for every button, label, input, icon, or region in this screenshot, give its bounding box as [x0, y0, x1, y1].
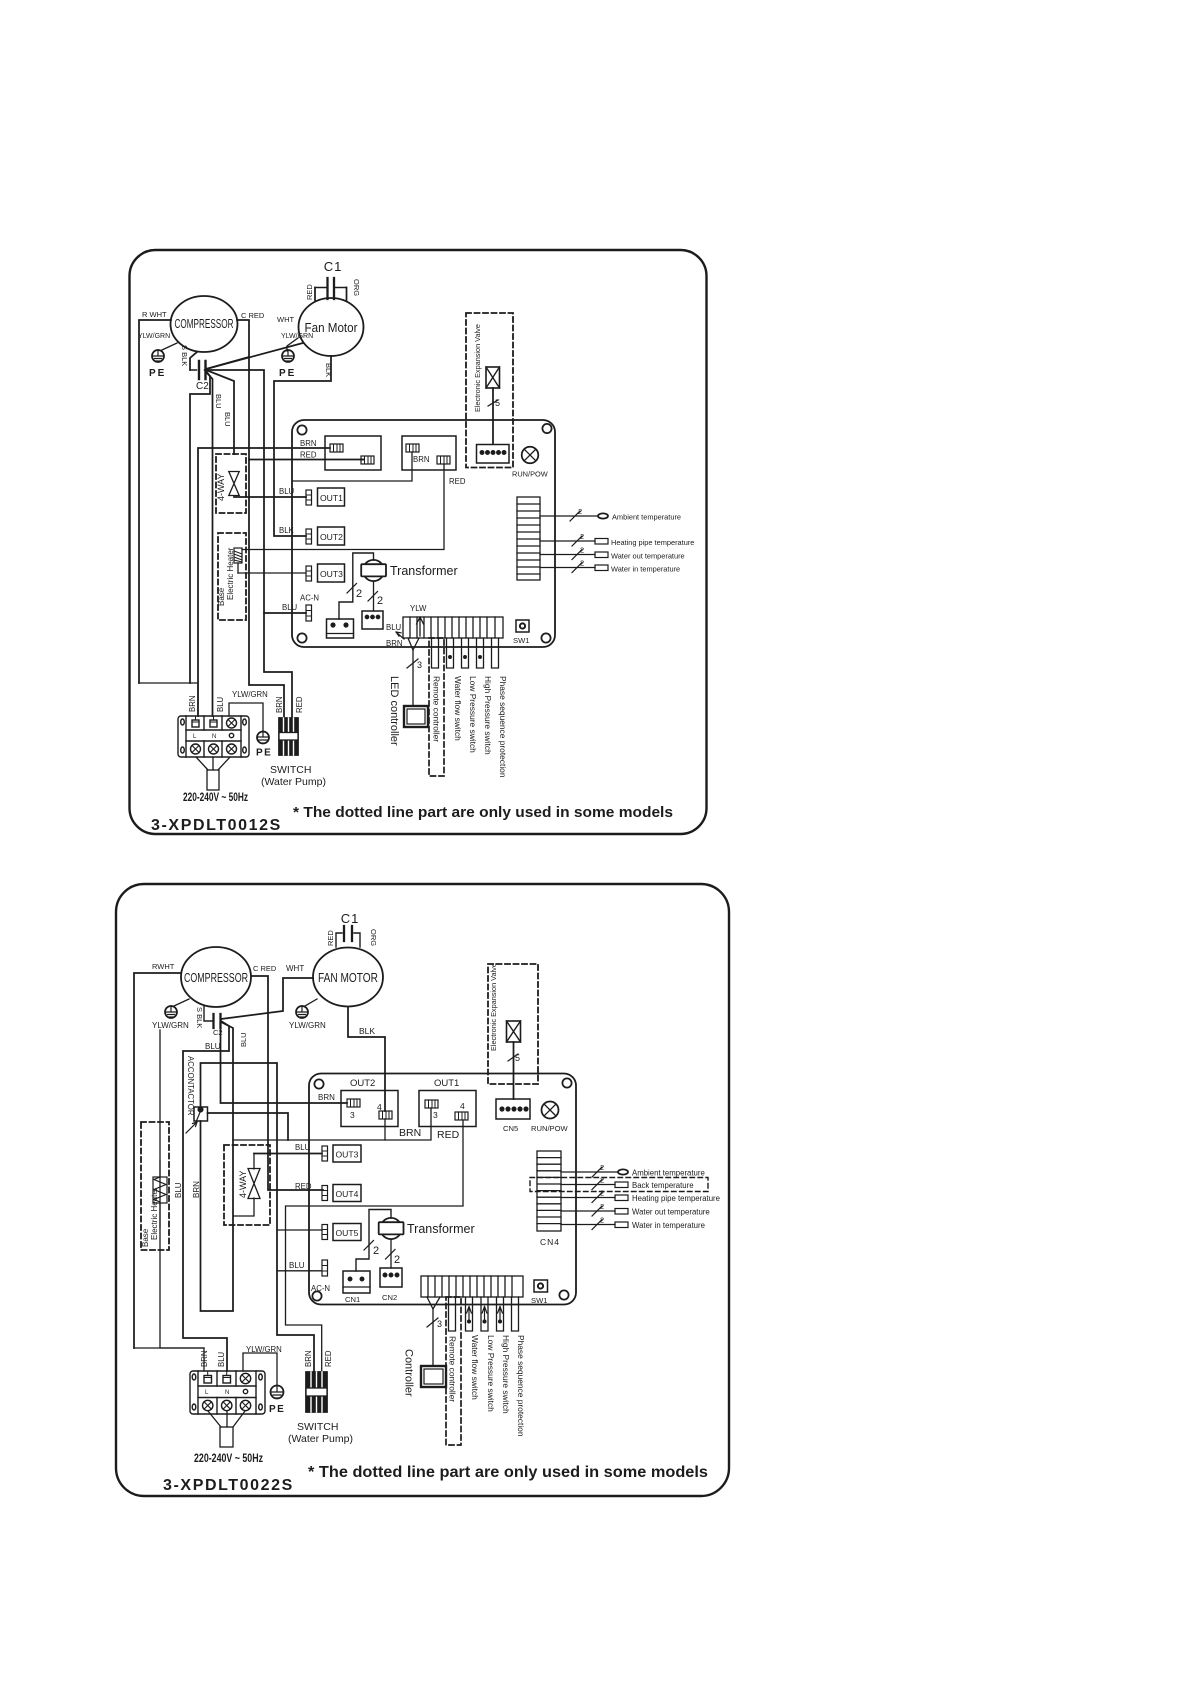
sensor Back dashed (bottom)	[530, 1176, 708, 1192]
wire C2 to BLU step (bottom)	[183, 1021, 229, 1371]
svg-text:C RED: C RED	[241, 311, 265, 320]
svg-text:OUT2: OUT2	[320, 532, 343, 542]
dashed box 4-WAY	[216, 454, 246, 513]
pcb hole bottom-right	[541, 633, 550, 642]
wire out3 to acn conn	[347, 584, 357, 594]
capacitor C2	[180, 345, 209, 392]
svg-text:2: 2	[580, 532, 584, 541]
contactor AC (bottom)	[186, 1107, 208, 1133]
wires into terminal (bottom)	[134, 1348, 204, 1371]
wire RWHT (bottom)	[134, 973, 180, 1348]
svg-text:COMPRESSOR: COMPRESSOR	[184, 971, 248, 985]
wire C RED	[237, 320, 284, 718]
valve 4-WAY	[216, 472, 239, 502]
svg-text:BRN: BRN	[399, 1127, 421, 1139]
svg-text:(Water Pump): (Water Pump)	[288, 1433, 353, 1445]
svg-text:OUT1: OUT1	[434, 1078, 459, 1089]
svg-text:3-XPDLT0012S: 3-XPDLT0012S	[151, 817, 282, 834]
svg-text:COMPRESSOR: COMPRESSOR	[175, 317, 234, 331]
switch SW1 (bottom)	[531, 1280, 548, 1305]
wire RED run to pcb	[249, 459, 363, 461]
plug	[207, 770, 219, 790]
pcb board outline (bottom)	[309, 1074, 576, 1305]
svg-text:Water flow switch: Water flow switch	[470, 1335, 480, 1400]
svg-text:AC-N: AC-N	[311, 1284, 330, 1293]
sensor Heating pipe (bottom)	[561, 1189, 720, 1204]
svg-text:RED: RED	[305, 284, 314, 300]
dashed box heater (bottom)	[141, 1122, 169, 1250]
svg-text:2: 2	[600, 1163, 604, 1172]
svg-text:High Pressure switch: High Pressure switch	[501, 1335, 511, 1414]
svg-text:FAN MOTOR: FAN MOTOR	[318, 971, 378, 985]
ground PE main (bottom)	[269, 1386, 285, 1416]
svg-text:(Water Pump): (Water Pump)	[261, 776, 326, 788]
svg-text:3: 3	[350, 1110, 355, 1120]
relay OUT2	[279, 526, 345, 545]
svg-text:ORG: ORG	[352, 279, 361, 296]
svg-text:WHT: WHT	[286, 964, 304, 973]
svg-text:2: 2	[600, 1176, 604, 1185]
wire pair high pressure (bottom)	[497, 1297, 504, 1331]
svg-text:Remote controller: Remote controller	[448, 1336, 458, 1402]
svg-text:Electronic Expansion Valve: Electronic Expansion Valve	[489, 963, 498, 1051]
svg-text:2: 2	[373, 1245, 379, 1257]
svg-text:N: N	[212, 734, 216, 740]
wire pair low pressure	[462, 638, 469, 668]
lamp RUN/POW (bottom)	[531, 1102, 569, 1134]
svg-text:CN5: CN5	[503, 1124, 518, 1133]
svg-text:CN4: CN4	[540, 1237, 560, 1247]
connector CN1 (bottom)	[343, 1271, 370, 1304]
svg-text:Low Pressure switch: Low Pressure switch	[486, 1335, 496, 1412]
ground PE fan (bottom)	[289, 999, 326, 1030]
wire transformer bottom (bottom)	[390, 1239, 392, 1268]
LED controller box	[388, 676, 428, 746]
relay OUT5 (bottom)	[277, 1224, 361, 1241]
svg-text:SWITCH: SWITCH	[297, 1421, 338, 1433]
svg-text:BLU: BLU	[295, 1143, 311, 1152]
svg-text:220-240V ~ 50Hz: 220-240V ~ 50Hz	[183, 792, 248, 804]
motor FAN MOTOR (bottom)	[313, 948, 383, 1007]
dashed box EEV (bottom)	[488, 964, 538, 1084]
heater resistor (bottom)	[153, 1160, 167, 1228]
svg-text:N: N	[225, 1390, 229, 1396]
svg-text:2: 2	[356, 588, 362, 600]
wire transformer top (bottom)	[356, 1210, 391, 1272]
motor Fan Motor	[299, 298, 364, 356]
svg-text:2: 2	[600, 1216, 604, 1225]
plug (bottom)	[220, 1427, 233, 1447]
connector CN4 ladder (bottom)	[537, 1151, 561, 1247]
svg-text:YLW: YLW	[410, 604, 427, 613]
wire compressor S to C2	[190, 352, 197, 370]
svg-text:220-240V ~ 50Hz: 220-240V ~ 50Hz	[194, 1453, 263, 1465]
connector AC-N	[264, 594, 319, 622]
pcb hole top-left	[297, 425, 306, 434]
wire C RED (bottom)	[252, 976, 323, 1190]
sensor wire Heating pipe temperature	[540, 532, 694, 547]
wires to plug	[139, 683, 198, 716]
svg-text:OUT3: OUT3	[320, 569, 343, 579]
svg-text:AC-N: AC-N	[300, 594, 319, 603]
svg-text:C1: C1	[324, 259, 343, 274]
relay box2	[242, 436, 466, 550]
svg-text:3: 3	[417, 660, 422, 670]
sensor wire Water in temperature	[540, 559, 680, 574]
svg-text:SWITCH: SWITCH	[270, 764, 311, 776]
svg-text:BRN: BRN	[192, 1181, 201, 1198]
svg-text:RED: RED	[295, 696, 304, 713]
svg-text:C1: C1	[341, 911, 360, 926]
relay OUT4 (bottom)	[295, 1182, 361, 1202]
plug wires (bottom)	[208, 1411, 245, 1427]
top diagram border	[130, 250, 707, 834]
switch water pump	[261, 718, 326, 788]
wire WHT fan	[206, 343, 303, 369]
svg-text:2: 2	[600, 1189, 604, 1198]
capacitor C1 (bottom)	[326, 911, 378, 947]
wire RED out (bottom)	[286, 1120, 464, 1372]
wire R WHT	[139, 320, 171, 683]
svg-text:OUT3: OUT3	[336, 1150, 359, 1160]
svg-text:Phase sequence protection: Phase sequence protection	[498, 676, 508, 778]
svg-text:3: 3	[437, 1319, 442, 1329]
relay OUT3 (bottom)	[254, 1143, 361, 1162]
svg-text:BLU: BLU	[223, 412, 232, 427]
svg-text:C2: C2	[196, 381, 209, 392]
bottom diagram border	[116, 884, 729, 1496]
svg-text:2: 2	[578, 507, 582, 516]
pcb hole top-right	[542, 424, 551, 433]
svg-text:BLK: BLK	[359, 1026, 375, 1036]
connector AC-N (bottom)	[311, 1260, 330, 1293]
svg-text:Water flow switch: Water flow switch	[453, 676, 463, 741]
capacitor C1	[305, 259, 361, 300]
svg-text:Water out temperature: Water out temperature	[611, 552, 685, 561]
svg-text:4-WAY: 4-WAY	[216, 473, 226, 501]
svg-text:CN1: CN1	[345, 1295, 360, 1304]
svg-text:S BLK: S BLK	[195, 1007, 204, 1028]
svg-text:RED: RED	[324, 1350, 333, 1367]
svg-text:RUN/POW: RUN/POW	[512, 470, 548, 479]
svg-text:RWHT: RWHT	[152, 962, 175, 971]
svg-text:4: 4	[460, 1101, 465, 1111]
ground PE main	[256, 731, 272, 759]
svg-text:Heating pipe temperature: Heating pipe temperature	[632, 1194, 720, 1203]
svg-text:Phase sequence protection: Phase sequence protection	[516, 1335, 526, 1437]
wire YLWGRN PE (bottom)	[243, 1353, 277, 1386]
svg-text:YLW/GRN: YLW/GRN	[289, 1021, 326, 1030]
connector CN5 top	[477, 445, 510, 464]
lamp RUN/POW	[512, 447, 548, 479]
svg-text:L: L	[193, 734, 197, 740]
svg-text:BRN: BRN	[304, 1351, 313, 1367]
wire pair water flow	[447, 638, 454, 668]
svg-text:Ambient temperature: Ambient temperature	[612, 513, 681, 522]
svg-text:BLU: BLU	[239, 1032, 248, 1047]
switch SW1	[513, 620, 529, 645]
svg-text:BRN: BRN	[188, 696, 197, 712]
terminal block TB (bottom)	[190, 1371, 265, 1414]
svg-text:YLW/GRN: YLW/GRN	[138, 333, 170, 340]
svg-text:Transformer: Transformer	[390, 564, 458, 578]
svg-text:Water out temperature: Water out temperature	[632, 1208, 710, 1217]
svg-text:CN2: CN2	[382, 1293, 397, 1302]
sensor Water out (bottom)	[561, 1202, 710, 1217]
dashed box Remote controller	[429, 638, 444, 776]
svg-text:BLK: BLK	[279, 526, 295, 535]
wire contactor right to AC-N (bottom)	[208, 1113, 289, 1140]
terminal block TB1	[178, 716, 249, 757]
svg-text:BLU: BLU	[205, 1042, 221, 1051]
transformer T1	[361, 560, 457, 581]
svg-text:BLU: BLU	[289, 1261, 305, 1270]
ground PE compressor	[138, 333, 177, 379]
wire transformer top	[339, 553, 374, 619]
svg-text:S BLK: S BLK	[180, 345, 189, 366]
svg-text:YLW/GRN: YLW/GRN	[232, 690, 268, 699]
svg-text:PE: PE	[149, 368, 166, 379]
svg-text:SW1: SW1	[513, 636, 529, 645]
svg-text:OUT2: OUT2	[350, 1078, 375, 1089]
wire contactor top (bottom)	[201, 1063, 315, 1372]
dashed box Base Electric Heater	[218, 533, 246, 620]
relay box1	[300, 436, 381, 470]
wire pair remote	[432, 638, 439, 668]
pcb hole bottom-left	[297, 633, 306, 642]
connector CN2 (bottom)	[380, 1268, 402, 1302]
svg-text:RED: RED	[449, 477, 466, 486]
sensor wire Water out temperature	[540, 546, 685, 561]
svg-text:BLK: BLK	[324, 363, 333, 377]
wire WHT (bottom)	[221, 978, 313, 1019]
svg-text:5: 5	[515, 1053, 520, 1063]
wire BRN out (bottom)	[233, 1108, 431, 1140]
motor COMPRESSOR (bottom)	[181, 947, 251, 1007]
svg-text:5: 5	[495, 398, 500, 408]
wire 3 to LED controller	[407, 659, 422, 670]
relay OUT1	[234, 487, 345, 506]
terminal strip (bottom)	[421, 1276, 523, 1297]
wire CN1 up (bottom)	[364, 1241, 374, 1251]
svg-text:Heating pipe temperature: Heating pipe temperature	[611, 538, 694, 547]
svg-text:OUT5: OUT5	[336, 1228, 359, 1238]
svg-text:Electronic Expansion Valve: Electronic Expansion Valve	[473, 324, 482, 412]
svg-text:2: 2	[580, 559, 584, 568]
wire YLWGRN to PE	[229, 703, 263, 731]
svg-text:BRN: BRN	[300, 439, 316, 448]
svg-text:RED: RED	[300, 451, 317, 460]
wire pair phase (bottom)	[512, 1297, 519, 1331]
terminal strip bottom	[403, 617, 503, 638]
sensor Water in (bottom)	[561, 1216, 705, 1231]
svg-text:Back temperature: Back temperature	[632, 1181, 694, 1190]
svg-text:Base: Base	[141, 1228, 150, 1247]
connector 2pin box	[327, 619, 354, 638]
svg-text:PE: PE	[256, 748, 272, 759]
svg-text:* The dotted line part are onl: * The dotted line part are only used in …	[308, 1464, 708, 1481]
wire transformer bottom	[373, 581, 375, 611]
svg-text:ORG: ORG	[369, 929, 378, 946]
svg-text:OUT1: OUT1	[320, 493, 343, 503]
wire pair phase sequence	[492, 638, 499, 668]
ground PE fan	[279, 333, 313, 379]
svg-text:OUT4: OUT4	[336, 1189, 359, 1199]
svg-text:Ambient temperature: Ambient temperature	[632, 1169, 705, 1178]
svg-text:Water in temperature: Water in temperature	[611, 565, 680, 574]
svg-text:RUN/POW: RUN/POW	[531, 1124, 569, 1133]
pcb board outline	[292, 420, 555, 647]
svg-text:BLU: BLU	[214, 394, 223, 409]
svg-text:BLU: BLU	[386, 623, 402, 632]
svg-text:BRN: BRN	[275, 697, 284, 713]
svg-text:RED: RED	[295, 1182, 312, 1191]
svg-text:Low Pressure switch: Low Pressure switch	[468, 676, 478, 753]
svg-text:* The dotted line part are onl: * The dotted line part are only used in …	[293, 804, 673, 821]
motor COMPRESSOR	[171, 296, 238, 352]
svg-text:LED controller: LED controller	[388, 676, 400, 746]
valve EEV symbol	[486, 367, 500, 444]
relay OUT3	[238, 564, 345, 582]
ground PE compressor (bottom)	[152, 999, 189, 1030]
svg-text:3: 3	[433, 1110, 438, 1120]
svg-text:BLU: BLU	[217, 1351, 226, 1367]
svg-text:L: L	[205, 1390, 209, 1396]
svg-text:R WHT: R WHT	[142, 310, 167, 319]
wire pair remote (bottom)	[449, 1297, 456, 1331]
sensor wire Ambient temperature	[540, 507, 681, 522]
svg-text:Base: Base	[217, 587, 226, 606]
svg-text:Remote controller: Remote controller	[432, 676, 442, 742]
pcb holes (bottom)	[314, 1079, 323, 1088]
svg-text:YLW/GRN: YLW/GRN	[152, 1021, 189, 1030]
controller box (bottom)	[403, 1349, 447, 1397]
svg-text:C RED: C RED	[253, 964, 277, 973]
capacitor C2 (bottom)	[195, 1006, 223, 1037]
svg-text:BLU: BLU	[282, 603, 298, 612]
wire C2 BRN branch (bottom)	[201, 1022, 234, 1311]
svg-text:2: 2	[394, 1254, 400, 1266]
wire C2 to OUT2 BRN (bottom)	[221, 1028, 348, 1103]
svg-text:Water in temperature: Water in temperature	[632, 1221, 705, 1230]
connector 3pin box	[362, 611, 383, 629]
wire YLW arrow	[386, 604, 427, 706]
svg-text:BLU: BLU	[216, 696, 225, 712]
svg-text:RED: RED	[437, 1129, 460, 1141]
svg-text:BLU: BLU	[279, 487, 295, 496]
svg-text:WHT: WHT	[277, 315, 294, 324]
svg-text:BRN: BRN	[413, 455, 429, 464]
transformer (bottom)	[379, 1218, 475, 1239]
svg-text:SW1: SW1	[531, 1296, 547, 1305]
wire pair low pressure (bottom)	[481, 1297, 488, 1331]
svg-text:BRN: BRN	[386, 639, 402, 648]
svg-text:Electric Heater: Electric Heater	[226, 547, 235, 600]
svg-text:2: 2	[377, 595, 383, 607]
wire pair high pressure	[477, 638, 484, 668]
svg-text:2: 2	[600, 1202, 604, 1211]
svg-text:2: 2	[580, 546, 584, 555]
wire BLK fan	[274, 356, 331, 536]
wire BLK fan (bottom)	[348, 1007, 385, 1111]
dashed box remote (bottom)	[446, 1297, 461, 1445]
svg-text:High Pressure switch: High Pressure switch	[483, 676, 493, 755]
svg-text:RED: RED	[326, 930, 335, 946]
valve EEV symbol (bottom)	[507, 1021, 521, 1099]
switch water pump (bottom)	[288, 1372, 353, 1445]
svg-text:PE: PE	[269, 1404, 285, 1415]
valve 4-WAY (bottom)	[233, 1154, 260, 1217]
svg-text:BLU: BLU	[174, 1182, 183, 1198]
svg-text:BRN: BRN	[318, 1093, 335, 1102]
svg-text:3-XPDLT0022S: 3-XPDLT0022S	[163, 1477, 294, 1494]
connector CN4 ladder	[517, 497, 540, 580]
dashed box Electronic Expansion Valve	[466, 313, 513, 468]
wire pair water flow (bottom)	[466, 1297, 473, 1331]
wire C2 fanout right	[206, 370, 292, 718]
dashed box 4-WAY (bottom)	[224, 1145, 270, 1225]
relay OUT2 box (bottom)	[318, 1078, 398, 1127]
wire BRN run to pcb	[198, 448, 330, 716]
connector CN5 (bottom)	[496, 1099, 530, 1133]
sensor Ambient (bottom)	[561, 1163, 705, 1178]
svg-text:Transformer: Transformer	[407, 1222, 475, 1236]
svg-text:Electric Heater: Electric Heater	[150, 1187, 159, 1240]
svg-text:Controller: Controller	[403, 1349, 415, 1397]
svg-text:PE: PE	[279, 368, 296, 379]
svg-text:4-WAY: 4-WAY	[238, 1170, 248, 1198]
heater resistor	[234, 548, 242, 573]
relay OUT1 box (bottom)	[419, 1078, 476, 1127]
wire to controller (bottom)	[427, 1297, 442, 1366]
